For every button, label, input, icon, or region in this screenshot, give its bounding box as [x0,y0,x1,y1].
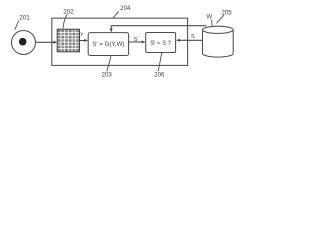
svg-text:204: 204 [120,5,131,12]
svg-text:S' = G(Y,W): S' = G(Y,W) [92,41,124,48]
svg-text:Y: Y [80,33,84,39]
svg-text:201: 201 [19,15,30,22]
svg-text:S': S' [134,37,139,43]
svg-text:S' ≈ S ?: S' ≈ S ? [150,41,171,47]
svg-text:W: W [206,14,212,21]
svg-text:205: 205 [221,9,232,16]
svg-text:203: 203 [102,72,113,79]
svg-text:206: 206 [154,71,165,78]
svg-text:202: 202 [63,8,74,15]
svg-text:S: S [191,34,195,40]
